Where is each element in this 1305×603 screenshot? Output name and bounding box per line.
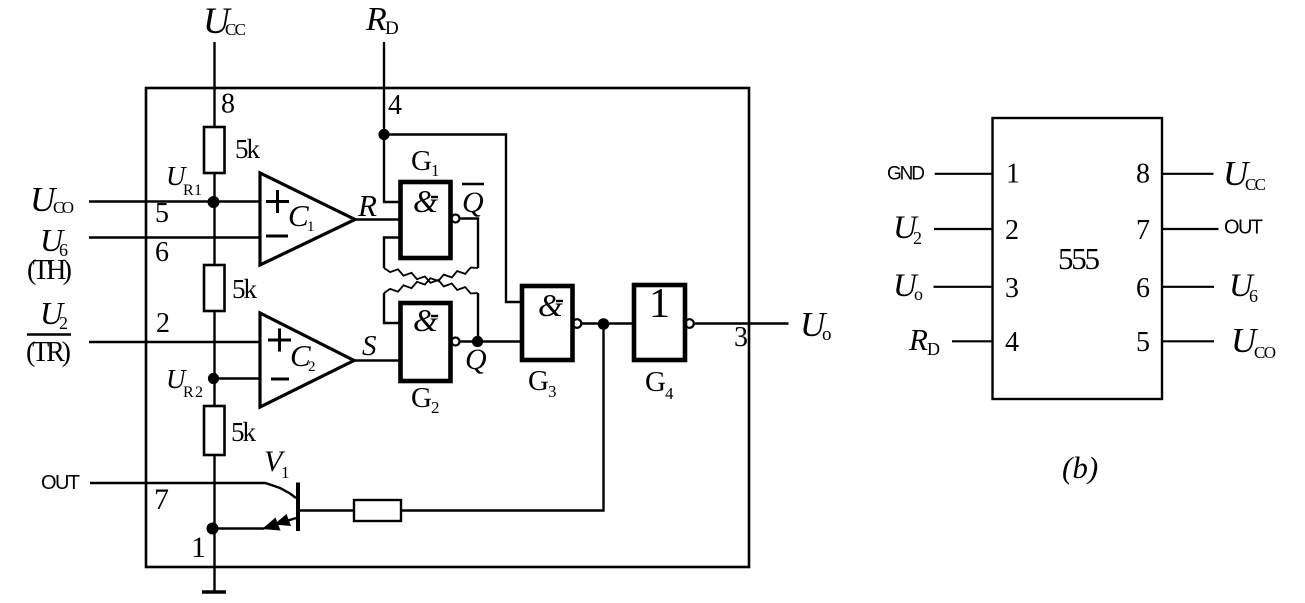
svg-text:8: 8: [221, 89, 235, 120]
wire pin 5 lead: [1162, 340, 1214, 342]
svg-text:Q: Q: [462, 186, 484, 219]
svg-text:G: G: [645, 366, 666, 398]
svg-text:2: 2: [913, 228, 922, 248]
wire output node down to transistor base resistor: [401, 324, 604, 511]
junction dot UR1 node: [208, 196, 220, 208]
resistor 5k middle: [204, 265, 225, 311]
wire emitter to pin 1 node: [214, 527, 264, 529]
transistor V1 emitter arrowheads: [262, 518, 281, 531]
junction dot pin4/RD node: [378, 129, 389, 140]
wire G4 output to pin 3 Uo: [694, 322, 789, 324]
transistor V1 bar: [296, 483, 300, 532]
wire Q cross-coupling zigzag to G1 input: [384, 268, 478, 294]
wire pin 7 lead: [1162, 228, 1219, 230]
gate G4 output bubble: [685, 319, 694, 328]
ground bar: [202, 590, 226, 594]
junction dot output node after G3: [598, 318, 610, 330]
wire pin 3 lead: [934, 286, 993, 288]
svg-text:8: 8: [1136, 159, 1150, 190]
svg-text:R2: R2: [183, 384, 203, 401]
svg-text:(TR): (TR): [26, 337, 71, 368]
wire C1 output R to G1: [355, 218, 401, 220]
gate G3 NAND body: [522, 286, 573, 360]
wire G2 output Q to G3 input: [460, 340, 523, 342]
svg-text:2: 2: [431, 398, 440, 417]
wire resistor chain R3 to pin1 and ground: [213, 455, 215, 592]
comparator C1 minus sign: [266, 235, 288, 238]
svg-text:G: G: [528, 365, 549, 397]
wire pin 2 U2 (TR) input to C2 +: [89, 341, 260, 343]
comparator C2 plus sign: [268, 329, 291, 352]
IC package box 555: [993, 118, 1163, 399]
svg-text:1: 1: [431, 161, 440, 180]
svg-text:1: 1: [281, 463, 290, 482]
wire C2 output S to G2: [354, 359, 401, 361]
svg-text:1: 1: [307, 219, 315, 235]
wire pin 4 lead: [952, 340, 993, 342]
wire G1 output to Qbar node: [460, 219, 479, 269]
svg-text:2: 2: [59, 313, 68, 333]
comparator C2 minus sign: [271, 378, 289, 381]
svg-text:(b): (b): [1062, 450, 1098, 485]
gate G2 NAND body: [401, 303, 451, 381]
wire Ucc supply lead into pin 8: [213, 42, 215, 127]
svg-text:R1: R1: [183, 182, 202, 199]
svg-text:2: 2: [1005, 215, 1019, 246]
wire G3 output to G4 input: [582, 322, 635, 324]
svg-text:(TH): (TH): [27, 255, 72, 286]
wire RD branch from pin4 node to G3 upper input: [384, 135, 522, 303]
svg-text:3: 3: [734, 322, 748, 353]
junction dot pin 1 node: [207, 523, 219, 535]
wire Q node riser to G2 output: [477, 293, 479, 342]
wire resistor chain R2-R3: [213, 311, 215, 406]
wire pin 1 GND lead: [935, 173, 993, 175]
svg-text:6: 6: [1249, 286, 1258, 306]
svg-text:6: 6: [1136, 273, 1150, 304]
svg-text:7: 7: [1136, 215, 1150, 246]
resistor 5k upper: [204, 127, 225, 173]
svg-text:C: C: [288, 198, 309, 233]
svg-text:G: G: [411, 145, 432, 177]
IC boundary box (555 internal diagram): [146, 88, 749, 567]
transistor V1 emitter lead: [262, 518, 296, 529]
svg-text:D: D: [385, 18, 399, 39]
svg-text:OUT: OUT: [41, 472, 80, 494]
junction dot Q node: [472, 336, 483, 347]
svg-text:R: R: [908, 322, 928, 357]
wire zigzag end into G2 input: [384, 293, 401, 323]
svg-text:5: 5: [155, 198, 169, 229]
svg-text:3: 3: [548, 382, 557, 401]
svg-text:5: 5: [1136, 327, 1150, 358]
wire RD lead into pin 4 down to G1 input: [384, 42, 401, 202]
svg-text:2: 2: [308, 359, 316, 375]
wire pin 2 lead: [934, 228, 993, 230]
svg-text:G: G: [411, 382, 432, 414]
gate G4 inverter body: [634, 285, 685, 360]
wire pin 6 lead: [1162, 286, 1214, 288]
svg-text:2: 2: [156, 308, 170, 339]
svg-text:R: R: [365, 1, 387, 38]
svg-text:&: &: [413, 183, 438, 219]
wire pin 6 U6 (TH) input to C1 -: [89, 236, 260, 238]
svg-text:CC: CC: [225, 20, 246, 39]
comparator C1 triangle: [260, 173, 355, 265]
svg-text:S: S: [362, 330, 377, 362]
comparator C2 triangle: [260, 313, 354, 407]
svg-text:4: 4: [665, 384, 674, 403]
wire pin 7 OUT to transistor collector: [90, 482, 266, 484]
svg-text:o: o: [914, 284, 923, 304]
resistor 5k lower: [204, 406, 225, 455]
svg-text:1: 1: [191, 531, 206, 564]
wire base resistor to transistor base: [300, 509, 354, 511]
wire resistor chain R1-R2: [213, 173, 215, 265]
svg-text:CO: CO: [53, 198, 74, 217]
junction dot UR2 node: [208, 373, 219, 384]
svg-text:&: &: [413, 302, 438, 338]
svg-text:4: 4: [388, 90, 402, 121]
wire pin 8 lead: [1162, 173, 1214, 175]
wire UR2 node to C2 -: [215, 377, 261, 379]
svg-text:6: 6: [155, 237, 169, 268]
svg-text:OUT: OUT: [1224, 217, 1263, 239]
svg-text:GND: GND: [887, 164, 925, 185]
gate G1 output bubble: [452, 215, 460, 223]
wire pin 5 Uco input to C1 +: [89, 200, 260, 202]
svg-text:D: D: [927, 339, 940, 359]
svg-text:CO: CO: [1254, 343, 1276, 362]
svg-text:5k: 5k: [235, 134, 261, 164]
comparator C1 plus sign: [266, 190, 289, 213]
svg-text:o: o: [822, 324, 832, 345]
svg-text:R: R: [357, 188, 377, 223]
gate G2 output bubble: [452, 338, 460, 346]
wire Qbar cross-coupling zigzag to G2 input: [384, 268, 478, 294]
resistor transistor base: [354, 500, 401, 521]
gate G1 NAND body: [401, 182, 451, 258]
svg-text:CC: CC: [1245, 175, 1266, 194]
svg-text:Q: Q: [465, 343, 487, 376]
transistor V1 collector lead: [266, 483, 297, 498]
svg-text:5k: 5k: [232, 274, 258, 304]
svg-text:4: 4: [1005, 327, 1019, 358]
gate G3 output bubble: [573, 319, 582, 328]
svg-text:5k: 5k: [231, 417, 257, 447]
svg-text:7: 7: [154, 483, 169, 516]
svg-text:3: 3: [1005, 273, 1019, 304]
svg-text:&: &: [538, 287, 563, 323]
svg-text:1: 1: [649, 281, 670, 327]
svg-text:1: 1: [1006, 159, 1020, 190]
svg-text:555: 555: [1058, 241, 1100, 276]
wire G1 lower feedback input stub: [384, 238, 401, 269]
